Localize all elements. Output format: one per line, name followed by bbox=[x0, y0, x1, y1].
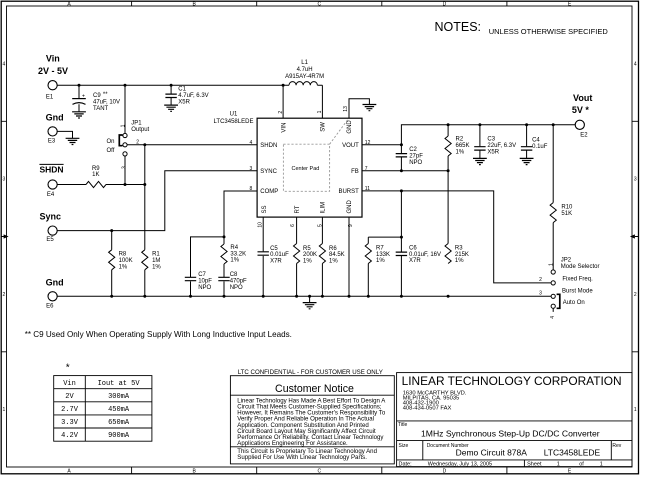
svg-text:Fixed Freq.: Fixed Freq. bbox=[562, 277, 593, 283]
svg-text:22uF, 6.3V: 22uF, 6.3V bbox=[487, 143, 516, 149]
svg-text:VIN: VIN bbox=[281, 123, 287, 133]
svg-text:1%: 1% bbox=[119, 264, 128, 270]
svg-text:2.7V: 2.7V bbox=[61, 406, 79, 414]
svg-text:SW: SW bbox=[321, 122, 327, 132]
svg-text:E1: E1 bbox=[46, 94, 54, 100]
svg-text:C6: C6 bbox=[409, 245, 417, 251]
svg-text:C1: C1 bbox=[178, 86, 186, 92]
svg-text:R4: R4 bbox=[230, 245, 238, 251]
svg-text:33.2K: 33.2K bbox=[230, 251, 246, 257]
svg-text:8: 8 bbox=[250, 186, 253, 192]
svg-text:1: 1 bbox=[600, 461, 603, 467]
svg-text:Vin: Vin bbox=[46, 53, 60, 63]
svg-text:2V: 2V bbox=[65, 393, 74, 401]
svg-text:C: C bbox=[317, 468, 321, 474]
svg-text:LTC3458LEDE: LTC3458LEDE bbox=[544, 448, 601, 458]
svg-text:**: ** bbox=[103, 92, 108, 98]
svg-text:Iout at 5V: Iout at 5V bbox=[98, 380, 141, 388]
svg-text:SHDN: SHDN bbox=[260, 143, 277, 149]
svg-text:2V - 5V: 2V - 5V bbox=[38, 66, 68, 76]
svg-text:R9: R9 bbox=[92, 166, 100, 172]
svg-text:E4: E4 bbox=[47, 192, 55, 198]
svg-text:215K: 215K bbox=[455, 252, 469, 258]
svg-text:Demo Circuit 878A: Demo Circuit 878A bbox=[456, 448, 528, 458]
svg-text:JP2: JP2 bbox=[561, 258, 572, 264]
svg-text:133K: 133K bbox=[376, 252, 390, 258]
svg-text:VOUT: VOUT bbox=[342, 143, 359, 149]
svg-text:1%: 1% bbox=[456, 150, 465, 156]
svg-text:Gnd: Gnd bbox=[46, 113, 64, 123]
svg-text:E3: E3 bbox=[48, 138, 56, 144]
svg-text:4.7uF, 6.3V: 4.7uF, 6.3V bbox=[178, 93, 208, 99]
svg-text:Size: Size bbox=[399, 443, 409, 449]
svg-text:Auto On: Auto On bbox=[563, 300, 585, 306]
svg-text:FB: FB bbox=[351, 169, 359, 175]
svg-text:27pF: 27pF bbox=[409, 154, 423, 160]
svg-text:2: 2 bbox=[539, 277, 542, 283]
svg-text:3: 3 bbox=[250, 166, 253, 172]
svg-text:C5: C5 bbox=[270, 246, 278, 252]
svg-text:1MHz Synchronous Step-Up DC/DC: 1MHz Synchronous Step-Up DC/DC Converter bbox=[421, 428, 600, 438]
svg-text:Output: Output bbox=[131, 127, 149, 133]
svg-text:NPO: NPO bbox=[409, 160, 422, 166]
svg-text:0.01uF, 16V: 0.01uF, 16V bbox=[409, 252, 441, 258]
svg-text:E6: E6 bbox=[46, 304, 54, 310]
svg-text:2: 2 bbox=[136, 140, 139, 146]
svg-text:E5: E5 bbox=[46, 237, 54, 243]
svg-text:900mA: 900mA bbox=[108, 432, 130, 440]
svg-text:Customer Notice: Customer Notice bbox=[275, 383, 354, 395]
svg-text:450mA: 450mA bbox=[108, 406, 130, 414]
svg-text:SYNC: SYNC bbox=[260, 169, 277, 175]
svg-text:R7: R7 bbox=[376, 245, 384, 251]
svg-text:408-434-0507 FAX: 408-434-0507 FAX bbox=[403, 406, 452, 412]
svg-text:X5R: X5R bbox=[178, 99, 190, 105]
svg-text:10pF: 10pF bbox=[198, 278, 212, 284]
svg-text:Mode Selector: Mode Selector bbox=[561, 264, 600, 270]
svg-text:E2: E2 bbox=[580, 133, 588, 139]
svg-text:R5: R5 bbox=[303, 246, 311, 252]
svg-text:C7: C7 bbox=[198, 272, 206, 278]
svg-text:A915AY-4R7M: A915AY-4R7M bbox=[285, 74, 324, 80]
svg-text:6: 6 bbox=[290, 224, 296, 227]
svg-text:R2: R2 bbox=[456, 137, 464, 143]
svg-text:+: + bbox=[82, 94, 85, 100]
svg-text:R10: R10 bbox=[561, 204, 573, 210]
svg-text:0.01uF: 0.01uF bbox=[270, 252, 289, 258]
svg-text:C3: C3 bbox=[487, 137, 495, 143]
svg-text:C: C bbox=[317, 1, 321, 7]
svg-text:SHDN: SHDN bbox=[39, 165, 63, 175]
svg-text:4: 4 bbox=[550, 316, 556, 319]
svg-text:D: D bbox=[443, 1, 447, 7]
svg-text:4.2V: 4.2V bbox=[61, 432, 79, 440]
svg-text:NPO: NPO bbox=[230, 285, 243, 291]
svg-text:LINEAR TECHNOLOGY CORPORATION: LINEAR TECHNOLOGY CORPORATION bbox=[402, 374, 622, 388]
svg-text:ILIM: ILIM bbox=[321, 202, 327, 214]
svg-text:NPO: NPO bbox=[198, 285, 211, 291]
svg-text:X7R: X7R bbox=[409, 258, 421, 264]
svg-text:C2: C2 bbox=[409, 147, 417, 153]
svg-text:1: 1 bbox=[317, 110, 323, 113]
svg-text:C9: C9 bbox=[93, 93, 101, 99]
svg-text:3: 3 bbox=[634, 177, 637, 183]
svg-text:R3: R3 bbox=[455, 245, 463, 251]
svg-text:Center Pad: Center Pad bbox=[291, 166, 319, 172]
svg-text:R1: R1 bbox=[152, 252, 160, 258]
svg-text:5: 5 bbox=[318, 224, 324, 227]
svg-text:R8: R8 bbox=[119, 252, 127, 258]
svg-text:UNLESS OTHERWISE SPECIFIED: UNLESS OTHERWISE SPECIFIED bbox=[489, 27, 609, 36]
svg-text:1: 1 bbox=[634, 407, 637, 413]
svg-text:Vin: Vin bbox=[63, 380, 76, 388]
svg-text:Sync: Sync bbox=[39, 212, 61, 222]
svg-text:Vout: Vout bbox=[573, 93, 592, 103]
svg-text:GND: GND bbox=[347, 120, 353, 134]
svg-text:5V *: 5V * bbox=[572, 105, 590, 115]
svg-text:3: 3 bbox=[539, 291, 542, 297]
svg-text:0.1uF: 0.1uF bbox=[532, 144, 548, 150]
svg-text:2: 2 bbox=[634, 292, 637, 298]
svg-text:RT: RT bbox=[295, 205, 301, 213]
svg-text:*: * bbox=[65, 363, 71, 375]
svg-text:JP1: JP1 bbox=[131, 120, 142, 126]
svg-text:BURST: BURST bbox=[338, 189, 359, 195]
svg-text:300mA: 300mA bbox=[108, 393, 130, 401]
svg-text:1K: 1K bbox=[92, 172, 99, 178]
svg-text:1: 1 bbox=[3, 407, 6, 413]
svg-text:84.5K: 84.5K bbox=[329, 252, 345, 258]
svg-text:Gnd: Gnd bbox=[46, 277, 64, 287]
svg-text:3: 3 bbox=[3, 177, 6, 183]
svg-text:LTC3458LEDE: LTC3458LEDE bbox=[214, 119, 254, 125]
svg-text:665K: 665K bbox=[456, 143, 470, 149]
svg-text:4.7uH: 4.7uH bbox=[297, 67, 313, 73]
svg-text:11: 11 bbox=[365, 186, 370, 192]
svg-text:470pF: 470pF bbox=[230, 278, 247, 284]
svg-text:D: D bbox=[443, 468, 447, 474]
svg-text:3.3V: 3.3V bbox=[61, 419, 79, 427]
svg-text:1M: 1M bbox=[152, 258, 160, 264]
svg-text:200K: 200K bbox=[303, 252, 317, 258]
svg-text:1%: 1% bbox=[303, 259, 312, 265]
svg-text:LTC CONFIDENTIAL - FOR CUSTOME: LTC CONFIDENTIAL - FOR CUSTOMER USE ONLY bbox=[238, 369, 383, 376]
svg-text:51K: 51K bbox=[561, 211, 572, 217]
svg-text:2: 2 bbox=[3, 292, 6, 298]
svg-text:13: 13 bbox=[343, 106, 349, 112]
svg-text:9: 9 bbox=[348, 224, 354, 227]
svg-text:X7R: X7R bbox=[270, 259, 282, 265]
svg-text:Wednesday, July 13, 2005: Wednesday, July 13, 2005 bbox=[428, 461, 492, 467]
svg-text:1%: 1% bbox=[376, 258, 385, 264]
svg-text:Supplied For Use With Linear T: Supplied For Use With Linear Technology … bbox=[237, 454, 367, 461]
svg-text:4: 4 bbox=[250, 140, 253, 146]
svg-text:1: 1 bbox=[549, 263, 555, 266]
svg-text:COMP: COMP bbox=[260, 189, 278, 195]
svg-text:650mA: 650mA bbox=[108, 419, 130, 427]
svg-text:4: 4 bbox=[3, 61, 6, 67]
svg-text:Burst Mode: Burst Mode bbox=[562, 288, 593, 294]
svg-text:Applications Engineering For A: Applications Engineering For Assistance. bbox=[237, 440, 348, 447]
svg-text:7: 7 bbox=[365, 166, 368, 172]
svg-text:NOTES:: NOTES: bbox=[435, 20, 482, 34]
svg-text:** C9 Used Only When Operating: ** C9 Used Only When Operating Supply Wi… bbox=[25, 330, 292, 339]
svg-text:On: On bbox=[107, 139, 115, 145]
svg-text:1: 1 bbox=[120, 124, 126, 127]
svg-text:GND: GND bbox=[347, 200, 353, 214]
svg-text:1: 1 bbox=[557, 461, 560, 467]
svg-text:1%: 1% bbox=[230, 258, 239, 264]
svg-text:C8: C8 bbox=[230, 272, 238, 278]
svg-text:1%: 1% bbox=[329, 259, 338, 265]
svg-text:L1: L1 bbox=[301, 60, 308, 66]
svg-text:Off: Off bbox=[107, 148, 115, 154]
svg-text:3: 3 bbox=[122, 166, 128, 169]
svg-text:Date:: Date: bbox=[399, 461, 413, 467]
svg-text:1%: 1% bbox=[455, 258, 464, 264]
svg-text:U1: U1 bbox=[230, 112, 238, 118]
svg-text:R6: R6 bbox=[329, 246, 337, 252]
svg-text:SS: SS bbox=[262, 205, 268, 213]
svg-text:10: 10 bbox=[258, 222, 264, 228]
svg-text:47uF, 10V: 47uF, 10V bbox=[93, 100, 120, 106]
svg-text:TANT: TANT bbox=[93, 106, 109, 112]
svg-text:2: 2 bbox=[278, 111, 284, 114]
svg-text:4: 4 bbox=[634, 61, 637, 67]
svg-text:100K: 100K bbox=[119, 258, 133, 264]
svg-text:1%: 1% bbox=[152, 264, 161, 270]
svg-text:C4: C4 bbox=[532, 137, 540, 143]
svg-text:of: of bbox=[579, 461, 584, 467]
svg-text:12: 12 bbox=[365, 140, 371, 146]
svg-text:Title: Title bbox=[398, 422, 407, 428]
svg-text:X5R: X5R bbox=[487, 150, 499, 156]
svg-text:Sheet: Sheet bbox=[527, 461, 542, 467]
svg-text:Rev: Rev bbox=[612, 443, 621, 449]
